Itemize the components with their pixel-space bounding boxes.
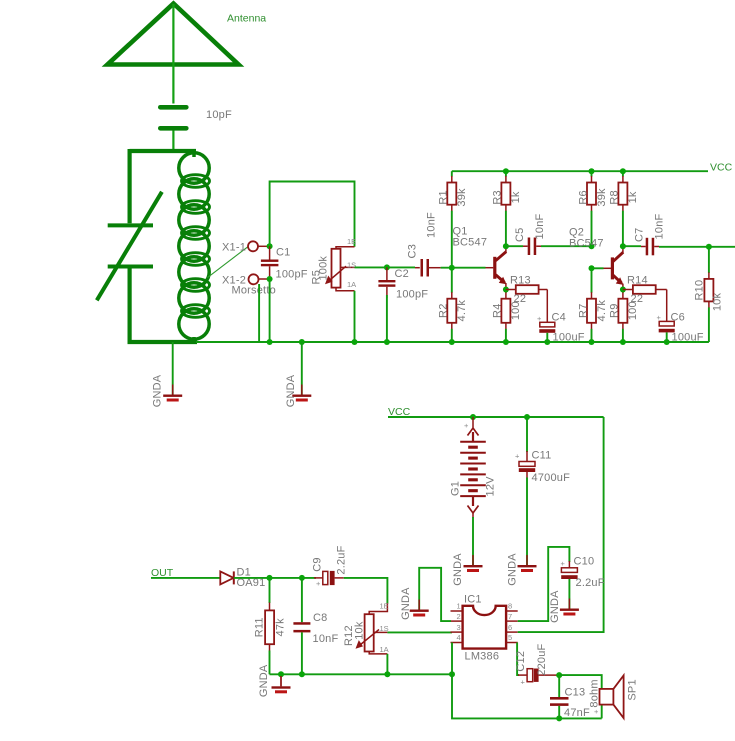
node bottom rail junction <box>620 339 626 345</box>
svg-text:100k: 100k <box>317 256 329 281</box>
svg-text:22: 22 <box>514 293 527 305</box>
svg-text:2: 2 <box>457 612 461 621</box>
svg-text:1k: 1k <box>627 191 639 203</box>
svg-text:R6: R6 <box>577 190 589 204</box>
node rail junction C1 <box>267 339 273 345</box>
IC1 pin 4 <box>451 642 463 644</box>
speaker SP1 <box>600 675 624 718</box>
wire X1-2 down to rail <box>258 284 260 342</box>
svg-text:4: 4 <box>457 633 461 642</box>
resistor R8 <box>618 171 627 246</box>
potentiometer R5 <box>325 247 355 291</box>
node IC pin4 rail junction <box>449 671 455 677</box>
svg-text:10nF: 10nF <box>534 213 546 239</box>
wire VCC rail top <box>452 170 708 172</box>
svg-text:7: 7 <box>508 612 512 621</box>
svg-text:4700uF: 4700uF <box>532 472 571 484</box>
svg-text:2.2uF: 2.2uF <box>576 577 605 589</box>
wire R14 to C6 <box>666 290 668 322</box>
svg-text:10nF: 10nF <box>313 633 339 645</box>
capacitor C1 <box>261 246 279 279</box>
capacitor C10 polarized <box>561 561 577 609</box>
wire bottom rail <box>196 341 709 343</box>
wire C1 bottom to rail <box>269 279 271 342</box>
wire battery to ground <box>472 517 474 565</box>
wire IC pin6 to VCC <box>518 417 604 632</box>
svg-text:10nF: 10nF <box>426 212 438 238</box>
svg-text:R2: R2 <box>438 303 450 317</box>
svg-text:IC1: IC1 <box>464 594 482 606</box>
variable capacitor plate top <box>108 223 153 227</box>
capacitor C2 <box>378 267 395 298</box>
inductor coil L1 <box>179 151 210 342</box>
battery G1 12V <box>460 417 486 518</box>
ground GNDA lower rail <box>272 676 291 693</box>
tank circuit top wire <box>130 149 196 153</box>
wire C9 to R12 1E <box>344 578 388 604</box>
wire top loop X1-1 to R5 1E <box>270 182 355 247</box>
resistor R9 <box>618 290 627 343</box>
svg-text:C13: C13 <box>565 687 586 699</box>
svg-text:C4: C4 <box>552 312 566 324</box>
svg-text:+: + <box>537 314 542 323</box>
ground GNDA tank <box>163 385 182 402</box>
IC1 pin 5 <box>506 642 518 644</box>
wire R6 node to Q2 base <box>592 267 604 269</box>
svg-text:GNDA: GNDA <box>258 664 270 697</box>
antenna symbol <box>108 4 239 104</box>
svg-text:R3: R3 <box>492 190 504 204</box>
svg-text:GNDA: GNDA <box>507 553 519 586</box>
wire R5 wiper to C2 and C3 <box>355 266 416 268</box>
wire IC pin5 to C12 <box>517 643 519 676</box>
wire antenna cap to tank <box>172 131 174 152</box>
resistor R2 <box>447 268 456 342</box>
svg-text:R11: R11 <box>253 617 265 637</box>
resistor R14 <box>623 285 667 294</box>
capacitor C4 polarized <box>539 322 555 342</box>
ground GNDA C11 <box>518 555 537 572</box>
svg-text:100uF: 100uF <box>553 332 585 344</box>
svg-text:GNDA: GNDA <box>452 553 464 586</box>
svg-text:39k: 39k <box>596 188 608 207</box>
svg-text:3: 3 <box>457 623 461 632</box>
node Q2 base junction <box>589 265 595 271</box>
svg-text:22: 22 <box>631 293 644 305</box>
wire C2 to rail <box>386 295 388 342</box>
svg-text:+: + <box>561 559 566 568</box>
svg-text:+: + <box>657 313 662 322</box>
svg-text:10k: 10k <box>712 293 724 312</box>
node Q1 collector junction <box>503 243 509 249</box>
node GND tap junction <box>278 671 284 677</box>
ground GNDA pin2 <box>410 600 429 617</box>
connector X1-1 <box>248 241 270 251</box>
variable capacitor arrow <box>97 192 162 300</box>
svg-text:C8: C8 <box>313 612 327 624</box>
capacitor C3 <box>415 259 441 277</box>
capacitor C8 <box>293 578 310 674</box>
node Q2 collector junction <box>620 243 626 249</box>
node C8 junction <box>299 575 305 581</box>
svg-text:C12: C12 <box>515 651 527 672</box>
wire C12 to speaker <box>559 675 602 718</box>
capacitor C12 polarized <box>518 669 559 682</box>
svg-text:1S: 1S <box>380 624 389 633</box>
node C11 VCC junction <box>524 414 530 420</box>
svg-text:8ohm: 8ohm <box>588 679 600 707</box>
capacitor C11 polarized <box>519 417 535 565</box>
svg-text:C7: C7 <box>634 228 646 242</box>
svg-text:R4: R4 <box>492 303 504 317</box>
diode D1 OA91 <box>220 571 234 584</box>
resistor R11 <box>265 578 274 674</box>
svg-text:R9: R9 <box>609 303 621 317</box>
svg-text:4.7k: 4.7k <box>456 300 468 322</box>
wire C3 to Q1 base <box>441 267 486 269</box>
node C2 junction <box>384 264 390 270</box>
tank bottom wire <box>128 340 198 344</box>
svg-text:VCC: VCC <box>710 162 733 174</box>
wire R5 1A to rail <box>354 291 356 342</box>
capacitor C5 <box>523 238 541 256</box>
node bottom rail junction <box>503 339 509 345</box>
node rail junction gnd2 <box>299 339 305 345</box>
node bottom rail junction <box>664 339 670 345</box>
svg-text:GNDA: GNDA <box>285 374 297 407</box>
connector X1-2 <box>249 274 270 284</box>
capacitor C9 polarized <box>314 571 344 585</box>
svg-text:C6: C6 <box>671 312 685 324</box>
node VCC rail junction <box>503 168 509 174</box>
node X1-1 junction <box>267 243 273 249</box>
svg-text:G1: G1 <box>449 481 461 496</box>
svg-text:4.7k: 4.7k <box>596 300 608 322</box>
node bottom rail junction <box>589 339 595 345</box>
node C13 bottom junction <box>556 715 562 721</box>
wire tank ground tap <box>172 342 174 395</box>
op-amp IC1 LM386 <box>463 606 507 649</box>
capacitor C7 <box>641 238 659 256</box>
svg-text:1A: 1A <box>347 280 356 289</box>
svg-text:100uF: 100uF <box>672 332 704 344</box>
potentiometer R12 <box>356 603 388 654</box>
svg-text:+: + <box>316 579 321 588</box>
ground GNDA 2 <box>292 385 311 402</box>
svg-text:R10: R10 <box>694 280 706 301</box>
svg-text:100pF: 100pF <box>396 289 428 301</box>
svg-text:+: + <box>464 421 469 430</box>
svg-text:10pF: 10pF <box>206 109 232 121</box>
svg-text:R13: R13 <box>510 275 531 287</box>
wire IC pin4 to bottom loop <box>452 643 602 719</box>
node bottom rail junction <box>449 339 455 345</box>
IC1 pin 3 <box>451 631 463 633</box>
wire IC pin7 to C10 <box>518 547 570 621</box>
wire C7 to R10 and edge <box>659 246 735 248</box>
svg-text:R8: R8 <box>609 190 621 204</box>
IC1 pin 6 <box>506 631 518 633</box>
node rail junction C2 <box>384 339 390 345</box>
svg-text:BC547: BC547 <box>569 238 604 250</box>
svg-text:SP1: SP1 <box>627 679 639 700</box>
wire lower ground rail <box>270 673 453 675</box>
svg-text:C5: C5 <box>514 228 526 242</box>
transistor Q1 BC547 <box>495 246 507 289</box>
svg-text:10k: 10k <box>353 621 365 640</box>
svg-text:BC547: BC547 <box>453 237 488 249</box>
ground GNDA battery <box>464 555 483 572</box>
node R10 junction <box>706 244 712 250</box>
node R11 junction <box>267 575 273 581</box>
svg-text:220uF: 220uF <box>536 643 548 675</box>
node bottom rail junction <box>544 339 550 345</box>
svg-text:+: + <box>521 678 526 687</box>
svg-text:47nF: 47nF <box>564 707 590 719</box>
svg-text:GNDA: GNDA <box>400 587 412 620</box>
node Q1 emitter junction <box>503 287 509 293</box>
node battery VCC junction <box>470 414 476 420</box>
capacitor 10pF plate 2 <box>160 126 186 131</box>
resistor R3 <box>501 171 510 246</box>
svg-text:R14: R14 <box>627 275 648 287</box>
resistor R1 <box>447 171 456 268</box>
svg-text:C11: C11 <box>532 450 552 462</box>
svg-text:39k: 39k <box>456 188 468 207</box>
tank left branch upper wire <box>128 149 132 223</box>
svg-text:GNDA: GNDA <box>549 590 561 623</box>
svg-text:10nF: 10nF <box>653 213 665 239</box>
svg-text:12V: 12V <box>485 476 497 497</box>
wire R12 1A to rail <box>386 654 388 674</box>
node C5 R6 junction <box>589 243 595 249</box>
IC1 pin 1 <box>451 610 463 612</box>
transistor Q2 BC547 <box>612 246 623 289</box>
variable capacitor plate bottom <box>108 265 153 269</box>
wire coil tap to X1-1 <box>208 247 248 278</box>
svg-text:LM386: LM386 <box>465 651 500 663</box>
svg-text:8: 8 <box>508 602 512 611</box>
wire IC pin2 to ground <box>419 568 451 621</box>
resistor R7 <box>587 268 596 342</box>
resistor R4 <box>501 290 510 343</box>
resistor R6 <box>587 171 596 246</box>
wire GND tap <box>280 676 282 686</box>
resistor R10 <box>704 247 713 342</box>
wire D1 to C9 <box>234 577 316 579</box>
svg-text:C3: C3 <box>406 244 418 258</box>
svg-text:1: 1 <box>457 602 461 611</box>
svg-text:C2: C2 <box>395 268 409 280</box>
IC1 pin 8 <box>506 610 518 612</box>
svg-text:1E: 1E <box>380 602 389 611</box>
wire gnd2 tap <box>301 342 303 395</box>
node C12 speaker junction <box>556 672 562 678</box>
svg-text:1A: 1A <box>380 645 389 654</box>
node X1-2 junction <box>267 276 273 282</box>
svg-text:2.2uF: 2.2uF <box>335 545 347 574</box>
ground GNDA C10 <box>560 599 579 616</box>
resistor R13 <box>506 285 547 294</box>
svg-text:100pF: 100pF <box>276 269 308 281</box>
wire VCC rail lower <box>388 416 604 418</box>
svg-text:C1: C1 <box>276 247 290 259</box>
node VCC rail junction <box>589 168 595 174</box>
svg-text:GNDA: GNDA <box>152 374 164 407</box>
wire R12 1S to IC pin3 <box>387 631 452 633</box>
node Q1 base junction <box>449 265 455 271</box>
node Q2 emitter junction <box>620 287 626 293</box>
node C8 rail junction <box>299 671 305 677</box>
svg-text:1E: 1E <box>347 237 356 246</box>
tank left branch lower wire <box>128 269 132 343</box>
svg-text:X1-1: X1-1 <box>222 242 246 254</box>
wire OUT to D1 <box>151 577 220 579</box>
svg-text:R7: R7 <box>577 303 589 317</box>
node VCC rail junction <box>620 168 626 174</box>
IC1 pin 2 <box>451 620 463 622</box>
wire Q1 collector to C5 <box>506 245 523 247</box>
capacitor 10pF plate 1 <box>160 105 186 110</box>
svg-text:Antenna: Antenna <box>227 13 266 25</box>
node R12 rail junction <box>384 671 390 677</box>
svg-text:1k: 1k <box>510 191 522 203</box>
svg-text:C9: C9 <box>312 557 324 571</box>
wire Q2 collector to C7 <box>623 245 641 247</box>
IC1 pin 7 <box>506 620 518 622</box>
svg-text:R1: R1 <box>438 190 450 204</box>
svg-text:47k: 47k <box>275 618 287 637</box>
capacitor C6 polarized <box>659 321 675 342</box>
svg-text:C10: C10 <box>574 556 595 568</box>
wire C5 to R6 node <box>541 245 592 247</box>
svg-text:5: 5 <box>508 633 512 642</box>
node rail junction R5 <box>352 339 358 345</box>
svg-text:6: 6 <box>508 623 512 632</box>
capacitor C13 <box>550 675 569 718</box>
svg-text:+: + <box>515 452 520 461</box>
wire R13 to C4 <box>546 290 548 323</box>
